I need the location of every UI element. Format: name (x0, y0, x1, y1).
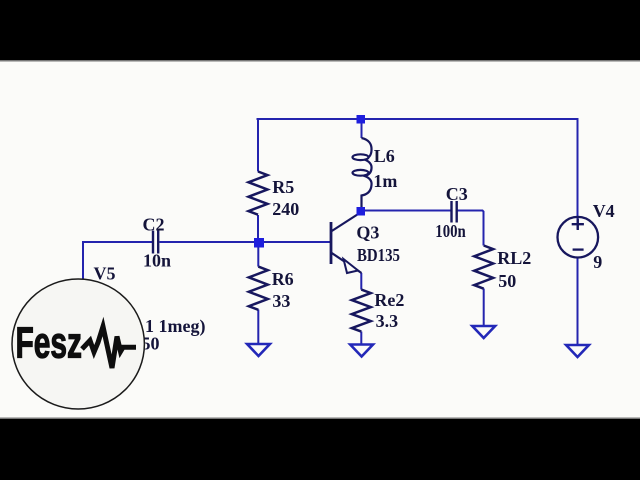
svg-text:Re2: Re2 (374, 290, 404, 310)
svg-text:BD135: BD135 (357, 245, 400, 265)
svg-text:50: 50 (498, 271, 516, 291)
svg-text:V4: V4 (593, 201, 615, 221)
svg-text:100n: 100n (435, 221, 466, 241)
svg-text:R6: R6 (272, 269, 294, 289)
svg-text:10n: 10n (143, 251, 171, 271)
svg-text:L6: L6 (374, 146, 395, 166)
svg-text:240: 240 (272, 199, 299, 219)
svg-text:RL2: RL2 (497, 248, 531, 268)
svg-text:1m: 1m (373, 171, 397, 191)
svg-text:Fesz: Fesz (16, 318, 83, 367)
svg-text:C2: C2 (143, 215, 165, 235)
svg-text:33: 33 (272, 291, 290, 311)
svg-text:9: 9 (593, 252, 602, 272)
svg-text:V5: V5 (94, 264, 116, 284)
svg-text:R5: R5 (272, 177, 294, 197)
svg-text:3.3: 3.3 (376, 311, 399, 331)
svg-text:C3: C3 (446, 184, 468, 204)
svg-text:Q3: Q3 (356, 222, 379, 242)
